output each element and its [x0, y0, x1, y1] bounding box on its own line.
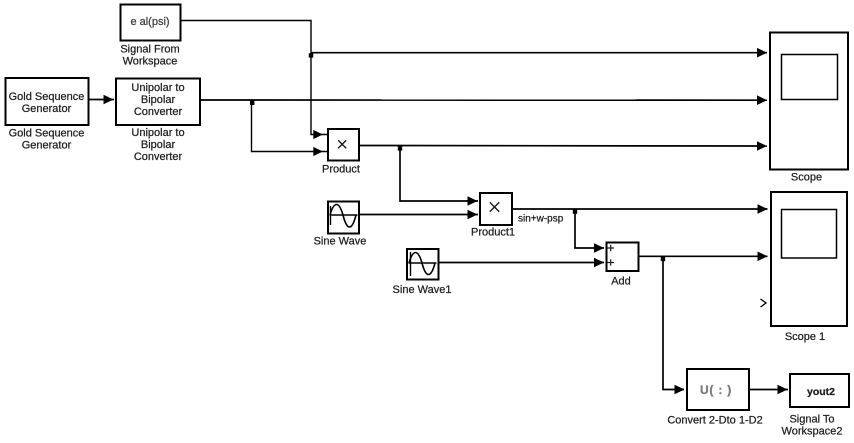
block Sine Wave [328, 202, 359, 234]
svg-text:Workspace2: Workspace2 [782, 426, 843, 438]
block Signal From Workspace (e al(psi)) [121, 5, 181, 41]
svg-text:Scope: Scope [791, 172, 822, 184]
svg-text:Gold Sequence: Gold Sequence [9, 128, 85, 140]
block Unipolar to Bipolar Converter [116, 79, 200, 126]
block Scope 1 [771, 192, 847, 326]
wire Signal From Workspace output (to Scope in1 and Product in1) [180, 21, 328, 140]
svg-text:Gold Sequence: Gold Sequence [9, 91, 85, 103]
label Convert 2-Dto 1-D2 [667, 415, 762, 427]
label Signal From Workspace [120, 44, 179, 68]
svg-text:Unipolar to: Unipolar to [131, 127, 184, 139]
svg-text:Workspace: Workspace [123, 56, 178, 68]
svg-text:yout2: yout2 [807, 386, 835, 398]
label Sine Wave1 [393, 284, 452, 296]
wire Sine Wave1 output to Add in2 [439, 258, 605, 268]
svg-text:Convert 2-Dto 1-D2: Convert 2-Dto 1-D2 [667, 415, 762, 427]
block Gold Sequence Generator [6, 78, 89, 125]
block Sine Wave1 [407, 249, 439, 280]
svg-text:e al(psi): e al(psi) [130, 16, 169, 28]
label Product [322, 164, 360, 176]
junction on Unipolar output wire [250, 100, 328, 156]
block Scope [770, 33, 848, 170]
block Signal To Workspace2 (yout2) [790, 374, 849, 407]
wire Product output (to Scope in3 and Product1 in1) [360, 141, 768, 151]
label Add [611, 276, 631, 288]
wire Product1 output (to Scope1 in1 and Add in1) [513, 204, 768, 214]
wire Sine Wave output to Product1 in2 [360, 210, 479, 220]
label sin+w-psp [518, 214, 564, 225]
wire Unipolar converter output (to Scope in2 and Product in2) [201, 95, 767, 105]
svg-text:U( : ): U( : ) [700, 383, 732, 397]
block Add [607, 243, 639, 272]
port marker Scope 1 input 3 [761, 299, 767, 307]
junction on Product output wire [398, 146, 478, 206]
svg-text:Scope 1: Scope 1 [785, 331, 825, 343]
svg-text:Bipolar: Bipolar [141, 94, 176, 106]
label Scope [791, 172, 822, 184]
junction on Product1 output wire [573, 209, 604, 253]
svg-text:Sine Wave1: Sine Wave1 [393, 284, 452, 296]
svg-text:Sine Wave: Sine Wave [314, 236, 367, 248]
block Convert 2-D to 1-D2 (U(:)) [687, 369, 749, 410]
junction on Add output wire [661, 256, 685, 394]
svg-text:Signal To: Signal To [789, 414, 834, 426]
wire Gold Sequence Generator to Unipolar converter [89, 95, 114, 105]
block Product1 [480, 193, 512, 225]
label Signal To Workspace2 [782, 414, 843, 438]
block Product [328, 129, 359, 161]
label Product1 [471, 227, 515, 239]
junction on Signal From Workspace wire [309, 48, 767, 58]
svg-text:Converter: Converter [134, 106, 183, 118]
svg-text:Add: Add [611, 276, 631, 288]
svg-text:Converter: Converter [134, 151, 183, 163]
wire Convert block output to Signal To Workspace2 [749, 385, 788, 395]
label Gold Sequence Generator [9, 128, 85, 152]
label Unipolar to Bipolar Converter [131, 127, 184, 163]
svg-text:Generator: Generator [22, 103, 72, 115]
svg-text:sin+w-psp: sin+w-psp [518, 214, 564, 225]
svg-text:Product: Product [322, 164, 360, 176]
svg-text:Product1: Product1 [471, 227, 515, 239]
svg-text:Signal From: Signal From [120, 44, 179, 56]
svg-text:Bipolar: Bipolar [141, 139, 176, 151]
svg-text:Unipolar to: Unipolar to [131, 82, 184, 94]
label Scope 1 [785, 331, 825, 343]
svg-text:Generator: Generator [22, 140, 72, 152]
wire Add output (to Scope1 in2 and Convert block) [639, 252, 768, 262]
label Sine Wave [314, 236, 367, 248]
